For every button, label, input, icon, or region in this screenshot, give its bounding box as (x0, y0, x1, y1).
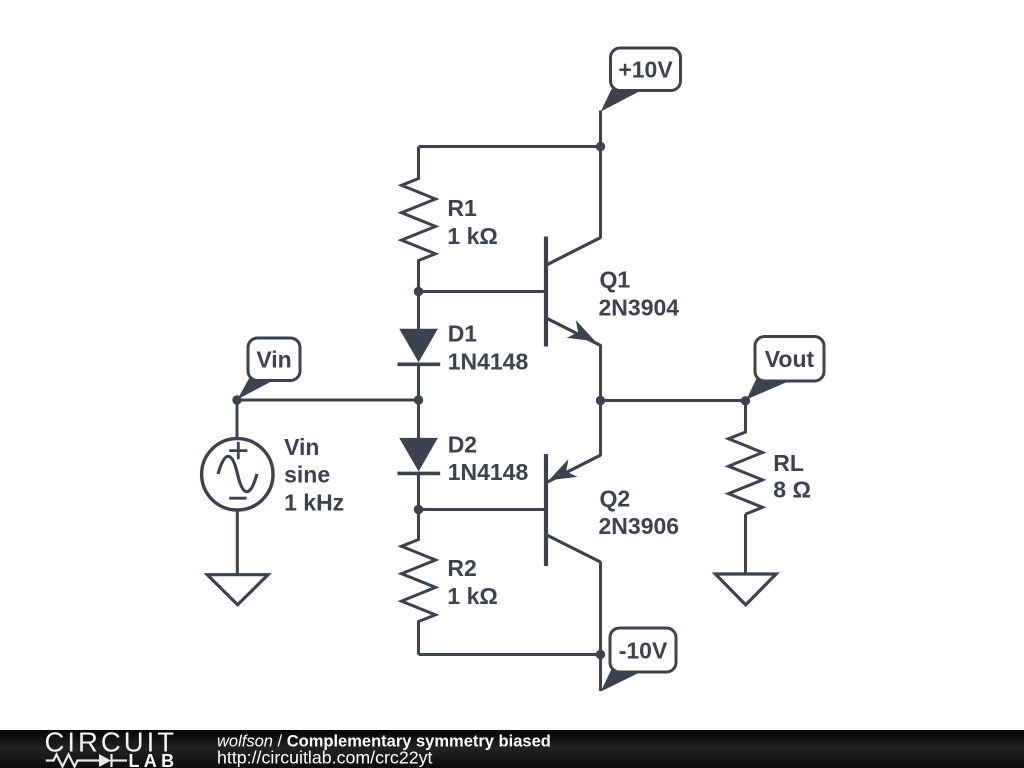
flag -10V (601, 628, 676, 692)
svg-text:2N3904: 2N3904 (599, 294, 680, 320)
resistor RL (729, 401, 763, 514)
svg-text:2N3906: 2N3906 (599, 513, 680, 539)
node diode midpoint junction (414, 395, 423, 404)
svg-text:sine: sine (284, 462, 330, 488)
flag Vin (238, 338, 301, 399)
wire bottom rail (419, 653, 601, 656)
wire Q2 collector vertical with -10V tail (599, 562, 602, 692)
node Q2 base junction (414, 505, 423, 514)
wire RL bottom lead (744, 514, 747, 574)
svg-text:1 kΩ: 1 kΩ (447, 223, 497, 249)
node emitter junction (596, 396, 605, 405)
wire top rail (419, 145, 601, 148)
svg-text:Vin: Vin (256, 347, 291, 373)
flag Vout (747, 337, 825, 400)
resistor R2 (402, 510, 436, 655)
voltage source V1 (202, 439, 273, 510)
wire Q2 emitter vertical (599, 401, 602, 456)
node Vin flag junction (232, 395, 241, 404)
svg-text:D2: D2 (448, 431, 477, 457)
footer bar (0, 730, 1024, 768)
svg-text:1N4148: 1N4148 (448, 459, 529, 485)
svg-text:R2: R2 (447, 555, 476, 581)
svg-text:1N4148: 1N4148 (448, 348, 529, 374)
logo resistor-diode glyph (46, 754, 127, 767)
ground at source (207, 575, 268, 605)
resistor R1 (402, 147, 436, 292)
wire +10V drop and Q1 collector vertical (599, 111, 602, 239)
wire emitter junction to Vout (601, 399, 746, 402)
svg-text:R1: R1 (447, 195, 477, 221)
diode D1 (398, 292, 441, 401)
transistor Q2 (546, 454, 601, 566)
svg-text:D1: D1 (448, 321, 478, 347)
svg-text:http://circuitlab.com/crc22yt: http://circuitlab.com/crc22yt (217, 747, 432, 767)
node -10V junction (596, 650, 605, 659)
transistor Q1 (546, 237, 601, 347)
wire Q1 emitter vertical (599, 345, 602, 401)
wire Q1 base horizontal (419, 290, 546, 293)
svg-text:1 kΩ: 1 kΩ (447, 583, 497, 609)
node Vout junction (741, 396, 750, 405)
svg-text:1 kHz: 1 kHz (284, 490, 344, 516)
ground at RL (715, 574, 776, 605)
node Q1 base junction (414, 287, 423, 296)
node top rail junction (596, 142, 605, 151)
diode D2 (398, 400, 441, 510)
svg-text:-10V: -10V (619, 638, 668, 664)
wire Q2 base horizontal (419, 508, 546, 511)
wire Vin source bottom lead (236, 510, 239, 575)
svg-text:Q1: Q1 (600, 267, 631, 293)
wire Vin source top lead (236, 400, 239, 439)
wire Vin horizontal (237, 399, 419, 402)
svg-text:Q2: Q2 (600, 486, 631, 512)
svg-text:Vout: Vout (765, 346, 815, 372)
svg-text:LAB: LAB (129, 751, 179, 768)
svg-text:8 Ω: 8 Ω (773, 477, 811, 503)
svg-text:RL: RL (773, 450, 804, 476)
svg-text:Vin: Vin (284, 434, 319, 460)
svg-text:+10V: +10V (618, 57, 673, 83)
flag +10V (601, 48, 681, 112)
